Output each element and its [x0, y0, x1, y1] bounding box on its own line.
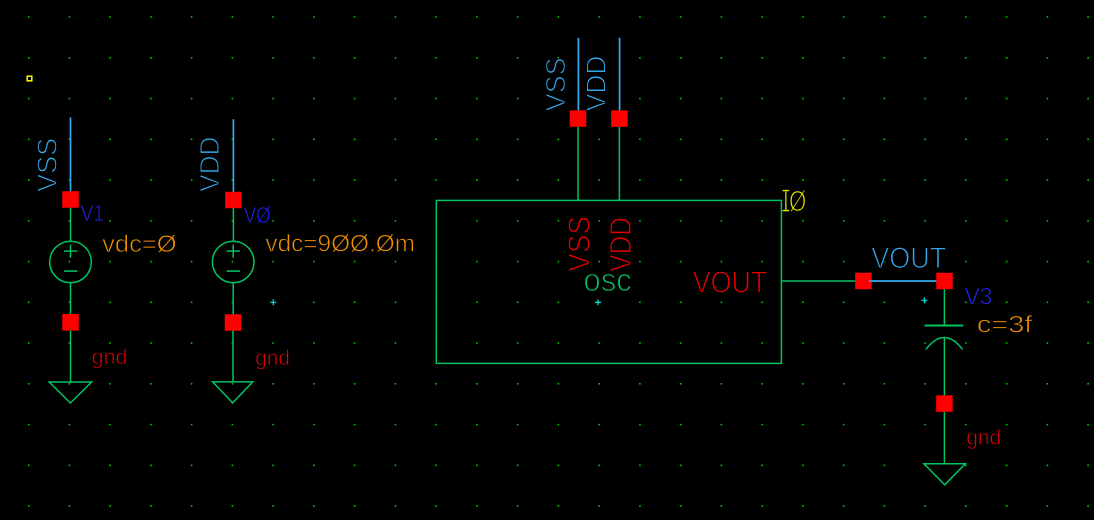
wire V1 top stub [70, 208, 72, 242]
svg-text:gnd: gnd [255, 347, 290, 370]
cyan origin marker I0 [595, 299, 601, 305]
ground symbol (V0) [213, 382, 253, 403]
pin square V0 minus terminal [225, 314, 242, 331]
svg-text:V1: V1 [81, 200, 105, 226]
wire VSS net (vertical, V1 top) [70, 118, 72, 200]
pin square V3 bottom terminal [936, 395, 953, 412]
wire into block VSS [577, 127, 579, 200]
svg-text:VSS: VSS [540, 57, 571, 111]
wire V0 to ground [232, 331, 234, 382]
wire V1 bottom stub [70, 283, 72, 315]
wire V0 top stub [232, 208, 234, 241]
ground symbol (V1) [49, 382, 91, 403]
wire V1 to ground [70, 331, 72, 383]
svg-text:gnd: gnd [966, 426, 1001, 449]
pin square V1 minus terminal [62, 314, 79, 331]
capacitor C bottom plate (arc) [926, 337, 963, 349]
wire VDD net (vertical, V0 top) [232, 119, 234, 199]
svg-text:osc: osc [583, 262, 632, 298]
svg-text:vdc=Ø: vdc=Ø [102, 231, 176, 258]
vdc source V1 (circle with plus/minus) [50, 241, 92, 283]
pin square I0 VDD [611, 110, 628, 127]
svg-text:VSS: VSS [31, 138, 62, 192]
capacitor C top plate [925, 325, 964, 327]
svg-text:vdc=9ØØ.Øm: vdc=9ØØ.Øm [265, 230, 415, 257]
cyan origin marker V0 [270, 299, 276, 305]
origin marker (yellow square) [27, 76, 32, 81]
wire V0 bottom stub [232, 283, 234, 315]
wire V3 bottom stub [943, 338, 945, 395]
wire VSS net (vertical, above I0) [577, 38, 579, 118]
wire V3 top stub [943, 289, 945, 325]
svg-text:V3: V3 [965, 284, 993, 311]
wire VOUT from block (green) [781, 280, 861, 282]
svg-text:VOUT: VOUT [693, 265, 768, 300]
pin square V3 top terminal [936, 273, 953, 290]
junction pin square VOUT [855, 273, 872, 290]
svg-text:VOUT: VOUT [871, 242, 946, 275]
ground symbol (V3) [924, 464, 965, 485]
wire into block VDD [618, 127, 620, 200]
cyan origin marker V3 [921, 297, 927, 303]
wire VDD net (vertical, above I0) [619, 38, 621, 118]
svg-text:VØ: VØ [244, 202, 271, 228]
pin square I0 VSS [570, 110, 587, 127]
wire V3 to ground [943, 412, 945, 464]
wire VOUT (blue segment) [869, 280, 940, 282]
svg-text:VDD: VDD [580, 56, 611, 112]
svg-text:VDD: VDD [194, 136, 225, 191]
block body I0 (osc symbol rectangle) [436, 200, 781, 363]
pin square V1 plus terminal [62, 191, 79, 208]
vdc source V0 (circle with plus/minus) [212, 241, 254, 283]
svg-text:gnd: gnd [92, 346, 128, 369]
svg-text:c=3f: c=3f [977, 312, 1033, 339]
pin square V0 plus terminal [225, 192, 242, 209]
